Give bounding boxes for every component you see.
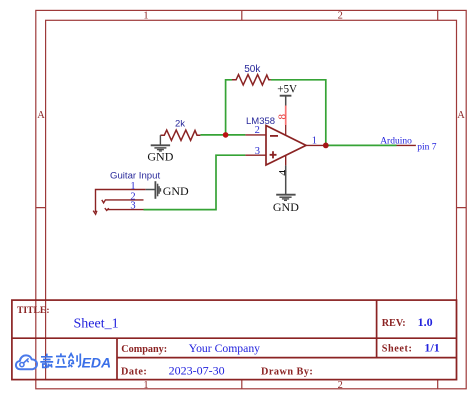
svg-text:A: A [457, 110, 465, 121]
svg-text:50k: 50k [244, 64, 261, 75]
svg-text:Sheet:: Sheet: [382, 344, 413, 355]
svg-text:4: 4 [276, 170, 290, 176]
svg-text:2: 2 [338, 380, 343, 391]
svg-text:2k: 2k [175, 119, 185, 130]
svg-text:1: 1 [130, 181, 135, 192]
svg-text:3: 3 [255, 146, 260, 157]
svg-text:Date:: Date: [121, 366, 147, 377]
svg-text:3: 3 [130, 201, 135, 212]
svg-text:1.0: 1.0 [418, 315, 433, 329]
svg-text:1: 1 [312, 135, 317, 146]
svg-text:GND: GND [163, 184, 189, 198]
svg-text:2: 2 [255, 125, 260, 136]
svg-text:pin 7: pin 7 [417, 143, 437, 153]
svg-text:+5V: +5V [277, 84, 297, 96]
svg-text:Sheet_1: Sheet_1 [74, 316, 119, 331]
svg-text:TITLE:: TITLE: [17, 305, 50, 316]
svg-text:LM358: LM358 [246, 116, 275, 127]
svg-text:Drawn By:: Drawn By: [261, 366, 313, 377]
svg-text:GND: GND [273, 200, 299, 214]
svg-text:EDA: EDA [82, 354, 112, 370]
svg-text:Arduino: Arduino [380, 136, 412, 146]
svg-text:Your Company: Your Company [189, 342, 260, 355]
svg-text:1: 1 [143, 380, 148, 391]
svg-text:1: 1 [143, 11, 148, 22]
svg-text:1/1: 1/1 [424, 341, 439, 355]
svg-text:2: 2 [338, 11, 343, 22]
svg-text:REV:: REV: [382, 318, 406, 329]
svg-text:A: A [37, 110, 45, 121]
svg-text:8: 8 [276, 114, 288, 120]
svg-text:GND: GND [147, 149, 173, 163]
svg-text:Company:: Company: [121, 344, 167, 355]
svg-text:2023-07-30: 2023-07-30 [169, 363, 225, 377]
